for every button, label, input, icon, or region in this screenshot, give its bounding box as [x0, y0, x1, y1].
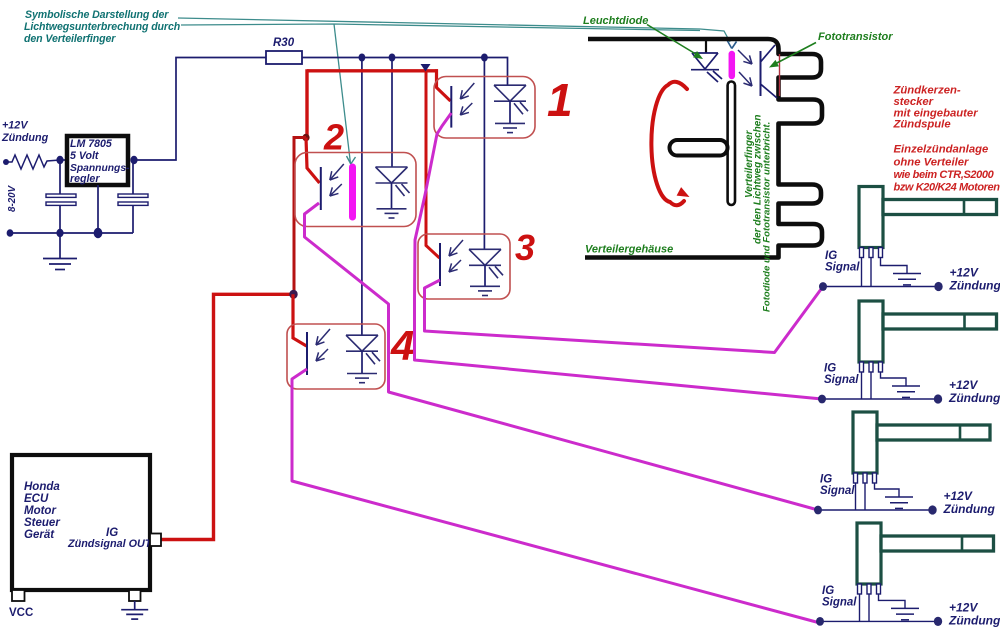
- node terminal: [7, 229, 14, 237]
- svg-text:den Verteilerfinger: den Verteilerfinger: [24, 33, 116, 45]
- node coil 1 IG: [819, 282, 827, 291]
- coil 4 spark plug boot bar: [881, 536, 994, 551]
- svg-text:IG: IG: [822, 585, 834, 597]
- node coil 2 +12V: [934, 394, 942, 403]
- svg-text:Gerät: Gerät: [24, 529, 55, 541]
- svg-text:Fototransistor: Fototransistor: [818, 31, 893, 43]
- maroon wire from opto2 node down to lower junction: [294, 138, 306, 295]
- wire opto4 emitter to coil4 IG: [292, 369, 820, 623]
- ECU IG out pin: [150, 534, 161, 547]
- svg-text:Signal: Signal: [822, 596, 857, 608]
- coil 2 ground: [892, 385, 920, 387]
- node rail B: [389, 54, 396, 62]
- opto3 phototransistor: [439, 243, 441, 286]
- ignition coil 1 body: [859, 187, 883, 248]
- pointer line 2: [181, 24, 700, 31]
- svg-text:Signal: Signal: [820, 485, 855, 497]
- opto1 phototransistor: [450, 86, 452, 128]
- ignition coil 3 body: [853, 412, 877, 473]
- opto2 ground: [377, 208, 407, 210]
- coil 4 wire pin2 to IG bus: [868, 594, 870, 621]
- svg-text:Signal: Signal: [824, 374, 859, 386]
- wire to LM7805: [60, 159, 67, 161]
- wire: regulator middle pin to ground bus: [97, 185, 99, 233]
- svg-text:Zündung: Zündung: [943, 502, 996, 516]
- opto4 LED: [346, 334, 378, 336]
- svg-text:+12V: +12V: [2, 120, 28, 132]
- distributor housing outline: [585, 39, 822, 258]
- wire: rail to LED of opto 2: [391, 58, 393, 168]
- coil 2 wire pin1 to IG bus: [861, 372, 863, 399]
- arrowhead at distributor bar: [727, 41, 732, 49]
- arrow Fototransistor: [773, 43, 816, 66]
- svg-text:Steuer: Steuer: [24, 517, 60, 529]
- optocoupler U1 box: [434, 77, 535, 139]
- opto2 light-gap bar (Verteilerfinger): [349, 167, 356, 217]
- coil 1 ground: [893, 273, 921, 275]
- svg-text:Fotodiode und Fototransistor u: Fotodiode und Fototransistor unterbricht…: [762, 122, 773, 312]
- node: regulator input: [56, 156, 63, 164]
- svg-text:5 Volt: 5 Volt: [70, 150, 99, 162]
- input resistor zigzag: [6, 155, 60, 169]
- node C1: [56, 229, 63, 237]
- svg-text:1: 1: [547, 74, 573, 126]
- red feed into opto4 transistor: [293, 294, 307, 346]
- coil 3 wire pin2 to IG bus: [864, 483, 866, 510]
- svg-text:+12V: +12V: [949, 600, 978, 614]
- opto3 ground: [470, 285, 500, 287]
- thin red collector line: [779, 54, 781, 96]
- node coil 3 IG: [814, 506, 822, 515]
- svg-text:4: 4: [390, 322, 414, 369]
- node coil 4 IG: [816, 617, 824, 626]
- svg-text:regler: regler: [70, 173, 100, 185]
- opto4 phototransistor: [306, 332, 308, 375]
- coil 3 wire pin1 to IG bus: [855, 483, 857, 510]
- svg-text:+12V: +12V: [950, 266, 979, 280]
- coil 1 wire pin3 to ground: [881, 258, 908, 274]
- svg-text:+12V: +12V: [949, 378, 978, 392]
- svg-text:3: 3: [515, 227, 535, 268]
- svg-text:ECU: ECU: [24, 493, 49, 505]
- opto1 LED: [507, 84, 509, 87]
- rotor handle: [670, 140, 728, 156]
- coil 3 wire pin3 to ground: [875, 483, 900, 497]
- svg-text:wie beim CTR,S2000: wie beim CTR,S2000: [894, 169, 995, 181]
- node coil 2 IG: [818, 395, 826, 404]
- svg-text:Einzelzündanlage: Einzelzündanlage: [894, 143, 989, 155]
- coil 2 wire pin3 to ground: [881, 372, 907, 386]
- node rail C: [481, 54, 488, 62]
- node maroon junction at opto2 feed: [302, 134, 309, 142]
- node rail A: [359, 54, 366, 62]
- arrowhead at opto2 bar: [347, 156, 351, 164]
- optocoupler U4 box: [287, 324, 385, 389]
- coil 2 pins: [860, 362, 864, 372]
- svg-text:Leuchtdiode: Leuchtdiode: [583, 15, 648, 27]
- node: regulator output: [130, 156, 137, 164]
- arrow Leuchtdiode: [647, 25, 699, 57]
- svg-text:R30: R30: [273, 37, 295, 49]
- ECU ground symbol: [134, 601, 136, 610]
- distributor light-gap bar: [729, 54, 736, 76]
- coil 1 wire pin2 to IG bus: [870, 258, 872, 287]
- svg-text:bzw K20/K24 Motoren: bzw K20/K24 Motoren: [894, 182, 1000, 194]
- Honda ECU box: [12, 455, 150, 590]
- node on red rail: [421, 64, 431, 72]
- pointer line to distributor light gap: [178, 18, 730, 42]
- svg-text:+12V: +12V: [944, 489, 973, 503]
- optocoupler U3 box: [418, 234, 510, 299]
- red wire from ECU IG out: [161, 294, 293, 539]
- svg-text:VCC: VCC: [9, 607, 33, 619]
- opto2 LED: [376, 166, 408, 168]
- red leg down-left to opto2: [305, 69, 308, 138]
- capacitor C2: [118, 194, 148, 197]
- ground bus: [10, 232, 133, 234]
- node regulator gnd: [94, 228, 103, 238]
- node coil 4 +12V: [934, 617, 942, 626]
- red supply rail top: [307, 69, 438, 72]
- input terminal: [3, 159, 9, 165]
- svg-text:IG: IG: [825, 250, 837, 262]
- node coil 3 +12V: [928, 505, 936, 514]
- distributor LED (Leuchtdiode): [692, 52, 718, 54]
- wire: rail to LED of opto 3: [483, 58, 485, 250]
- coil 1 spark plug boot bar: [883, 200, 997, 215]
- coil 4 pins: [858, 584, 862, 594]
- opto4 ground: [347, 373, 377, 375]
- svg-text:2: 2: [323, 117, 344, 158]
- ECU VCC pin: [12, 590, 25, 601]
- red jog into opto1: [437, 69, 451, 101]
- coil 4 wire pin3 to ground: [879, 594, 906, 608]
- svg-text:8-20V: 8-20V: [7, 184, 18, 212]
- wire opto3 emitter to coil1 IG: [425, 280, 824, 353]
- svg-text:Motor: Motor: [24, 505, 56, 517]
- coil 1 wire pin1 to IG bus: [861, 258, 863, 287]
- coil 3 spark plug boot bar: [877, 425, 990, 440]
- svg-text:Lichtwegsunterbrechung durch: Lichtwegsunterbrechung durch: [24, 21, 181, 33]
- svg-text:Zündung: Zündung: [948, 391, 1000, 405]
- node coil 1 +12V: [934, 282, 942, 291]
- svg-text:Honda: Honda: [24, 481, 60, 493]
- svg-text:ohne Verteiler: ohne Verteiler: [894, 156, 970, 168]
- coil 2 IG / +12V bus: [822, 398, 938, 400]
- coil 1 IG / +12V bus: [823, 286, 939, 288]
- svg-text:Zündsignal OUT: Zündsignal OUT: [67, 538, 153, 550]
- wire: 5V output up to R30: [131, 58, 266, 161]
- distributor LED anode stem: [705, 41, 707, 53]
- coil 3 pins: [854, 473, 858, 483]
- optocoupler U2 box: [295, 153, 416, 227]
- rotation arrow (red arc): [651, 82, 687, 205]
- coil 2 spark plug boot bar: [883, 314, 997, 329]
- svg-text:Verteilergehäuse: Verteilergehäuse: [585, 244, 673, 256]
- coil 3 IG / +12V bus: [818, 509, 933, 511]
- svg-text:LM 7805: LM 7805: [70, 138, 113, 150]
- ground symbol power: [59, 233, 61, 258]
- coil 4 IG / +12V bus: [820, 620, 938, 622]
- svg-text:Symbolische Darstellung der: Symbolische Darstellung der: [25, 9, 169, 21]
- coil 3 ground: [885, 496, 913, 498]
- node lower red junction: [289, 290, 297, 299]
- opto3 LED: [469, 248, 501, 250]
- coil 4 ground: [891, 607, 919, 609]
- opto1 ground: [495, 122, 525, 124]
- distributor rotor (Verteilerfinger): [728, 82, 735, 206]
- ignition coil 2 body: [859, 301, 883, 362]
- svg-text:Zündung: Zündung: [948, 613, 1000, 627]
- coil 1 pins: [860, 248, 864, 258]
- distributor phototransistor: [760, 51, 762, 96]
- wire: rail to LED of opto 4: [361, 58, 363, 336]
- LM7805 voltage regulator U1: [67, 136, 128, 185]
- red leg down to opto3: [426, 72, 440, 258]
- svg-text:Zündspule: Zündspule: [893, 119, 951, 131]
- opto2 phototransistor: [320, 167, 322, 210]
- pointer branch to optocoupler 2 light gap: [334, 24, 351, 164]
- 5V rail to LED anodes: [302, 58, 508, 86]
- wire opto2 emitter to coil3 IG: [305, 203, 819, 510]
- red feed into opto2 transistor: [306, 138, 320, 184]
- capacitor C1: [46, 194, 76, 197]
- wire opto1 emitter to coil2 IG: [415, 113, 823, 399]
- svg-text:Zündung: Zündung: [949, 279, 1000, 293]
- ignition coil 4 body: [857, 523, 881, 584]
- resistor R30: [266, 51, 302, 64]
- svg-text:Zündkerzen-: Zündkerzen-: [893, 84, 961, 96]
- svg-text:stecker: stecker: [894, 96, 934, 108]
- coil 4 wire pin1 to IG bus: [859, 594, 861, 621]
- coil 2 wire pin2 to IG bus: [870, 372, 872, 399]
- svg-text:Signal: Signal: [825, 262, 860, 274]
- ECU ground pin: [129, 590, 141, 601]
- svg-text:Zündung: Zündung: [1, 132, 49, 144]
- svg-text:IG: IG: [820, 474, 832, 486]
- svg-text:IG: IG: [824, 363, 836, 375]
